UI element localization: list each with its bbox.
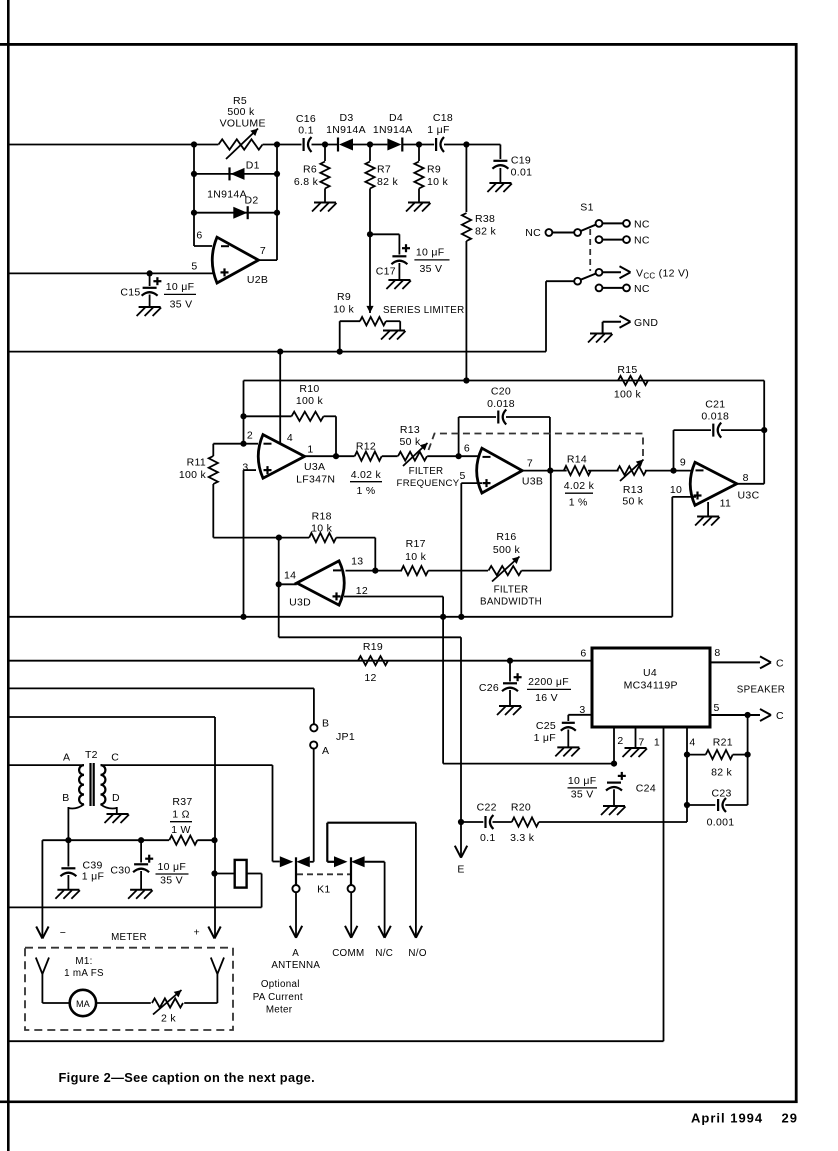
node D1 right	[274, 171, 280, 177]
svg-text:R9: R9	[337, 291, 351, 303]
wire C19 to ground	[499, 168, 501, 183]
wire C16 to D3	[312, 144, 339, 146]
svg-text:Figure 2—See caption on the ne: Figure 2—See caption on the next page.	[59, 1070, 315, 1085]
svg-text:8: 8	[743, 472, 749, 484]
svg-text:6: 6	[580, 648, 586, 660]
svg-text:R21: R21	[713, 737, 733, 749]
svg-text:R18: R18	[312, 510, 332, 522]
svg-text:R37: R37	[172, 796, 192, 808]
svg-text:NC: NC	[634, 283, 650, 295]
label T2 B	[62, 792, 69, 804]
node C20 left	[456, 453, 462, 459]
svg-text:S1: S1	[580, 202, 593, 214]
label D3	[326, 112, 366, 136]
label C21	[701, 398, 729, 422]
svg-text:C15: C15	[120, 287, 140, 299]
K1 left pole circle	[292, 885, 299, 892]
label N/O	[408, 948, 426, 959]
svg-text:10: 10	[670, 484, 682, 496]
label speaker C top	[776, 657, 784, 669]
svg-text:29: 29	[782, 1111, 798, 1126]
svg-text:Optional: Optional	[261, 979, 300, 990]
svg-text:R9: R9	[427, 164, 441, 176]
node R5-output junction	[274, 141, 280, 147]
svg-text:10 k: 10 k	[333, 304, 354, 316]
wire S1 pole2 to bus	[546, 281, 574, 351]
svg-text:1N914A: 1N914A	[326, 124, 366, 136]
JP1 B circle	[310, 724, 317, 731]
K1 left pole bar	[295, 857, 297, 885]
wire U4 pin1 column	[663, 727, 665, 1041]
wire feedback y380	[244, 380, 765, 382]
svg-text:NC: NC	[525, 227, 541, 239]
wire C21 left column	[674, 430, 712, 471]
potentiometer R9 series limiter	[360, 317, 386, 325]
svg-text:MA: MA	[76, 999, 91, 1009]
svg-text:11: 11	[720, 497, 732, 509]
wire C20 right	[506, 417, 550, 471]
wire R9 pot right	[386, 321, 400, 330]
wire COMM arrow	[345, 892, 357, 938]
resistor R18	[309, 533, 336, 542]
svg-text:R6: R6	[303, 164, 317, 176]
svg-text:C30: C30	[110, 865, 130, 877]
label R10	[296, 383, 324, 407]
T2 primary winding	[79, 765, 84, 804]
svg-text:C: C	[776, 710, 784, 722]
wire JP1 B row	[8, 688, 314, 724]
svg-text:M1:: M1:	[75, 956, 92, 967]
node C17 junction	[367, 231, 373, 237]
label M1	[64, 956, 104, 979]
wire C column	[273, 765, 280, 861]
label S1 row4 NC	[634, 283, 650, 295]
label U4	[624, 667, 678, 692]
resistor R7	[365, 162, 374, 189]
wire U3A pin2 stub	[244, 443, 259, 445]
U3D minus sign	[333, 569, 341, 571]
wire R38 stem	[465, 145, 467, 213]
wire R9 pot left	[340, 321, 360, 351]
potentiometer R16 bandwidth	[489, 557, 522, 582]
label U3B pin5	[460, 470, 466, 482]
wire U3B output	[522, 470, 567, 472]
svg-text:NC: NC	[634, 218, 650, 230]
svg-text:0.018: 0.018	[701, 410, 729, 422]
resistor R12	[355, 452, 382, 461]
wire R16 right	[522, 471, 551, 571]
label U3B pin6	[464, 443, 470, 455]
relay K1 coil	[235, 860, 247, 888]
ground C30	[128, 890, 153, 899]
node C21 left	[670, 468, 676, 474]
label C22	[477, 802, 497, 814]
label U3D pin14	[284, 570, 296, 582]
node C22 junction	[458, 819, 464, 825]
S1 pole1 terminal	[546, 229, 581, 236]
svg-text:SPEAKER: SPEAKER	[737, 685, 785, 696]
label S1 pole1 NC	[525, 227, 541, 239]
op-amp U2B	[212, 237, 258, 283]
capacitor C25	[561, 723, 576, 731]
capacitor C15	[142, 277, 162, 296]
label speaker C bottom	[776, 710, 784, 722]
wire C26 to ground	[509, 690, 511, 706]
resistor R10	[292, 412, 324, 421]
IC U4 box	[592, 648, 710, 727]
label GND	[634, 317, 658, 329]
label U3B pin7	[527, 458, 533, 470]
svg-text:A: A	[63, 752, 70, 764]
svg-text:FILTER: FILTER	[494, 585, 529, 596]
svg-text:B: B	[62, 792, 69, 804]
label R7	[377, 164, 398, 189]
svg-text:GND: GND	[634, 317, 658, 329]
svg-text:N/O: N/O	[408, 948, 426, 959]
S1 gang dashed link	[589, 229, 591, 271]
wire NO branch	[327, 823, 422, 938]
label meter plus	[193, 927, 199, 939]
wire meter minus row	[8, 906, 262, 908]
label METER	[111, 932, 147, 943]
resistor R17	[401, 566, 428, 575]
wire C22 row	[461, 821, 483, 823]
U3C plus sign	[694, 492, 702, 500]
svg-text:5: 5	[191, 261, 197, 273]
label T2	[85, 749, 98, 761]
svg-text:JP1: JP1	[336, 731, 355, 743]
node bus R9 pot	[337, 349, 343, 355]
label C39	[82, 859, 104, 882]
K1 right pole bar	[350, 857, 352, 885]
capacitor C23	[718, 798, 726, 812]
wire D1 row	[194, 173, 277, 175]
wire D3 to D4	[353, 144, 387, 146]
capacitor C24	[606, 772, 626, 791]
svg-text:K1: K1	[317, 883, 330, 895]
label C17 value	[414, 247, 449, 276]
capacitor C19	[492, 161, 508, 169]
potentiometer R13 frequency A	[398, 443, 428, 466]
caption Figure 2	[59, 1070, 315, 1085]
label R20 value	[510, 832, 535, 844]
label U3D pin13	[351, 555, 363, 567]
label U2B pin 7	[260, 245, 266, 257]
label R9 limiter	[333, 291, 354, 316]
wire E arrow	[455, 822, 467, 858]
label U3A pin1	[307, 444, 313, 456]
node C15 junction	[147, 270, 153, 276]
svg-text:4: 4	[689, 737, 695, 749]
label U3C pin9	[680, 457, 686, 469]
svg-text:C25: C25	[536, 720, 556, 732]
svg-text:3: 3	[242, 462, 248, 474]
svg-text:C: C	[776, 657, 784, 669]
label U3A	[296, 461, 335, 485]
svg-text:50 k: 50 k	[622, 496, 643, 508]
svg-text:6: 6	[464, 443, 470, 455]
label C30	[110, 865, 130, 877]
svg-text:R7: R7	[377, 164, 391, 176]
K1 gang dashed link	[297, 873, 350, 875]
wire U4 pin2 row	[443, 763, 614, 765]
wire R19 row	[8, 660, 592, 662]
svg-text:1 W: 1 W	[171, 824, 191, 836]
wire U3A pin4 stem	[279, 352, 281, 444]
node R21 left	[684, 752, 690, 758]
ground C39	[55, 890, 80, 899]
wire C15 stem	[149, 273, 151, 286]
wire coil left	[215, 873, 235, 875]
wire R9 to ground	[418, 189, 420, 203]
svg-text:C21: C21	[705, 398, 725, 410]
label SERIES LIMITER	[383, 305, 465, 316]
label C23 value	[707, 817, 735, 829]
label C26	[479, 682, 499, 694]
label R18	[311, 510, 332, 534]
svg-text:C18: C18	[433, 112, 453, 124]
label D2	[244, 195, 258, 207]
svg-text:2: 2	[247, 430, 253, 442]
wire corner down to C19	[499, 145, 501, 160]
svg-text:R13: R13	[623, 484, 643, 496]
svg-text:4: 4	[287, 432, 293, 444]
label R14 value	[564, 480, 595, 508]
dashed gang line R13	[429, 434, 644, 460]
ground C19	[487, 183, 512, 192]
svg-text:7: 7	[638, 737, 644, 749]
svg-text:2 k: 2 k	[161, 1013, 176, 1025]
svg-text:T2: T2	[85, 749, 98, 761]
wire C17 to ground	[398, 263, 400, 280]
label R37	[170, 796, 193, 836]
svg-text:Meter: Meter	[266, 1005, 293, 1016]
wire C20 left column	[459, 417, 496, 456]
wire pin2 column	[243, 381, 245, 444]
label 1N914A limiter	[207, 189, 247, 201]
ground C24	[601, 806, 626, 815]
ground C17	[386, 280, 411, 289]
K1 left fixed NO contact	[280, 856, 294, 867]
capacitor C20	[498, 410, 506, 425]
label E	[457, 864, 464, 876]
wire y380 corner down	[763, 381, 765, 431]
svg-text:14: 14	[284, 570, 296, 582]
footer April 1994	[691, 1111, 763, 1126]
node U3D pin13	[372, 568, 378, 574]
wire C21 right	[721, 429, 764, 431]
GND arrow symbol	[588, 316, 631, 343]
wire U3D output column	[279, 538, 461, 822]
node R9 junction	[416, 141, 422, 147]
svg-text:U4: U4	[643, 667, 657, 679]
svg-text:R19: R19	[363, 641, 383, 653]
diode D4	[387, 138, 402, 152]
svg-text:E: E	[457, 864, 464, 876]
label U3C pin11	[720, 497, 732, 509]
meter terminal Y left	[36, 958, 49, 1004]
U3A plus sign	[264, 466, 272, 474]
svg-text:R15: R15	[617, 364, 637, 376]
label U3C pin10	[670, 484, 682, 496]
wire R17 to R16	[428, 570, 488, 572]
label R20	[511, 802, 531, 814]
node R18 left	[276, 535, 282, 541]
svg-text:PA Current: PA Current	[253, 992, 303, 1003]
svg-text:−: −	[60, 927, 66, 939]
U3B minus sign	[483, 456, 491, 458]
resistor R20	[512, 817, 539, 826]
svg-text:BANDWIDTH: BANDWIDTH	[480, 596, 542, 607]
svg-text:1 %: 1 %	[357, 485, 376, 497]
wire U3C pin11 stub	[707, 502, 709, 516]
label R21 value	[711, 767, 732, 779]
svg-text:0.01: 0.01	[511, 167, 533, 179]
wire U2B pin6 stub	[194, 245, 212, 247]
wire U4 pin7	[635, 727, 637, 748]
node U3B output	[547, 468, 553, 474]
resistor R38	[462, 213, 471, 241]
diode D2	[233, 206, 247, 219]
node R38 feedback junction	[463, 377, 469, 383]
wire U3C pin10	[672, 497, 696, 617]
node C21 feedback	[761, 427, 767, 433]
wire R37 row	[42, 839, 169, 841]
svg-text:+: +	[193, 927, 199, 939]
wire R10 right	[324, 416, 337, 456]
svg-text:100 k: 100 k	[179, 469, 207, 481]
wire R11 bottom	[213, 484, 279, 538]
wire R37 right stub	[197, 839, 214, 841]
label U3D pin12	[356, 585, 368, 597]
svg-text:B: B	[322, 718, 329, 730]
svg-text:35 V: 35 V	[419, 263, 442, 275]
wire U3C feedback column	[763, 430, 765, 484]
svg-text:5: 5	[714, 702, 720, 714]
wire R5 to C16	[263, 144, 302, 146]
svg-text:U3D: U3D	[289, 596, 311, 608]
S1 row2 contacts	[596, 236, 630, 243]
wire R13 to U3B	[427, 455, 478, 457]
node C24 junction	[611, 761, 617, 767]
svg-text:C26: C26	[479, 682, 499, 694]
wire meter plus row	[8, 716, 215, 718]
svg-text:82 k: 82 k	[475, 226, 496, 238]
capacitor C39	[60, 840, 76, 889]
K1 right fixed NO contact	[334, 856, 348, 867]
label S1 row1 NC	[634, 218, 650, 230]
svg-text:1 mA FS: 1 mA FS	[64, 968, 104, 979]
wire speaker to C23 column	[747, 715, 749, 805]
node bias U3A pin3	[240, 614, 246, 620]
wire T2 D lead	[101, 804, 117, 813]
svg-text:D3: D3	[339, 112, 353, 124]
wire U3C output	[737, 483, 764, 485]
resistor R11	[209, 456, 218, 484]
capacitor C18	[436, 137, 444, 152]
svg-text:D2: D2	[244, 195, 258, 207]
svg-text:D1: D1	[246, 160, 260, 172]
wire meter loop right	[96, 1002, 151, 1004]
label R38	[475, 213, 496, 238]
svg-text:1 μF: 1 μF	[534, 732, 556, 744]
label S1	[580, 202, 593, 214]
node U3A pin2	[240, 441, 246, 447]
svg-text:12: 12	[356, 585, 368, 597]
label U4 pin6	[580, 648, 586, 660]
ground U3C pin11	[695, 517, 720, 526]
svg-text:3.3 k: 3.3 k	[510, 832, 535, 844]
page frame left border	[7, 0, 10, 1151]
label U3D	[289, 596, 311, 608]
U3C minus sign	[696, 469, 704, 471]
wire R10 left stub	[244, 415, 292, 417]
label Vcc	[636, 267, 689, 280]
U2B minus sign	[221, 245, 229, 247]
svg-text:4.02 k: 4.02 k	[351, 469, 382, 481]
node main-D1 junction	[191, 141, 197, 147]
svg-text:35 V: 35 V	[160, 875, 183, 887]
node C23 left	[684, 802, 690, 808]
svg-text:A: A	[292, 948, 299, 959]
S1 row3 Vcc contact	[596, 269, 621, 276]
capacitor C16	[304, 137, 312, 152]
svg-text:R16: R16	[496, 531, 516, 543]
wire U3D pin12	[344, 597, 443, 764]
op-amp U3C	[690, 462, 737, 505]
resistor R9 top	[414, 162, 423, 189]
label SPEAKER	[737, 685, 785, 696]
wire R9 wiper stem	[366, 234, 373, 313]
svg-text:0.018: 0.018	[487, 398, 515, 410]
node R10 left	[240, 413, 246, 419]
svg-text:1: 1	[654, 737, 660, 749]
svg-text:500 k: 500 k	[493, 544, 521, 556]
label JP1	[336, 731, 355, 743]
label R19	[363, 641, 383, 684]
label R17	[405, 538, 426, 563]
svg-text:C24: C24	[636, 783, 656, 795]
svg-text:10 μF: 10 μF	[158, 861, 187, 873]
label COMM	[332, 948, 364, 959]
label C25	[534, 720, 556, 744]
rheostat 2k	[152, 990, 183, 1015]
wire R13B to U3C	[645, 470, 691, 472]
svg-text:D4: D4	[389, 112, 403, 124]
label K1	[317, 883, 330, 895]
meter terminal Y right	[211, 958, 224, 1004]
wire C secondary	[101, 764, 273, 766]
capacitor C21	[713, 423, 721, 438]
label U2B	[247, 274, 268, 286]
wire pin1 return row	[8, 1040, 664, 1042]
node C39 junction	[65, 837, 71, 843]
label U4 pin8	[714, 647, 720, 659]
wire meter minus column	[36, 840, 48, 938]
wire T2 B lead	[68, 804, 84, 840]
ground R9	[406, 203, 431, 212]
wire C17 branch	[370, 234, 399, 254]
wire bias bus	[8, 616, 672, 618]
label C24	[636, 783, 656, 795]
label S1 row2 NC	[634, 235, 650, 247]
U3D plus sign	[333, 592, 341, 600]
wire R9 stem	[418, 145, 420, 162]
wire D4 to C18	[402, 144, 434, 146]
wire R11 top	[213, 444, 243, 456]
label C15 value	[164, 281, 196, 311]
label U2B pin 5	[191, 261, 197, 273]
